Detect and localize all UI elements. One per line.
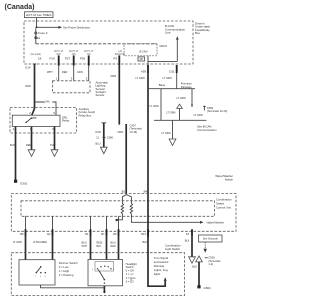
svg-text:GRN: GRN [118, 130, 124, 134]
svg-text:HOT AT ALL TIMES: HOT AT ALL TIMES [26, 13, 51, 17]
svg-text:1-2): 1-2) [208, 262, 213, 266]
wire below headlight switch [103, 286, 105, 292]
dimmer switch label [59, 261, 78, 277]
svg-text:24A: 24A [45, 101, 50, 104]
wire B4 through control unit [147, 194, 149, 238]
node: power feed junction [36, 26, 38, 28]
wire GRN below C407 [125, 126, 127, 194]
pin terminal bars [58, 55, 178, 73]
svg-text:Fuse 3: Fuse 3 [38, 31, 48, 35]
svg-text:D8: D8 [140, 57, 144, 61]
fuse/relay box border (Driver's Under-dash Fuse/Relay Box) [24, 21, 193, 64]
wire BLK from relay pin 4 to G301 [15, 127, 17, 181]
svg-text:B2: B2 [113, 232, 117, 236]
svg-text:B12: B12 [141, 232, 146, 236]
svg-text:LT GRN: LT GRN [13, 241, 22, 244]
svg-text:Package: Package [181, 85, 192, 89]
dimmer switch contacts [35, 266, 47, 278]
svg-text:See Power Distribution: See Power Distribution [63, 25, 90, 29]
svg-text:Box: Box [195, 31, 201, 35]
automatic lighting sensor box [53, 81, 91, 93]
svg-text:See Grounds: See Grounds [203, 237, 219, 241]
MICU box [124, 44, 157, 56]
svg-text:LT GRN: LT GRN [150, 104, 159, 108]
svg-text:K3: K3 [186, 232, 190, 236]
svg-text:Relay: Relay [62, 119, 70, 123]
svg-text:LT GRN: LT GRN [136, 76, 145, 80]
wire drop base [160, 89, 162, 121]
svg-text:18: 18 [38, 57, 42, 61]
svg-text:(Canada): (Canada) [5, 4, 35, 11]
label Driver's Under-dash Fuse/Relay Box [195, 21, 210, 35]
svg-text:E2: E2 [47, 232, 51, 236]
svg-text:LT GRN: LT GRN [162, 131, 171, 135]
svg-text:AUTO LT: AUTO LT [69, 50, 79, 53]
DRL relay [12, 115, 69, 126]
svg-text:B-CAN: B-CAN [140, 50, 148, 54]
dimmer switch box [19, 260, 55, 285]
wire GRN from pin 18 to DRL relay [34, 64, 36, 109]
wire drop to arrow [172, 120, 174, 139]
svg-text:WHT: WHT [47, 70, 53, 74]
svg-text:A39: A39 [141, 69, 147, 73]
svg-text:Line: Line [165, 31, 171, 35]
wiper/washer switch outer box [11, 194, 236, 232]
arrow up to B-CAN line [176, 36, 179, 39]
svg-text:BLK: BLK [143, 241, 148, 244]
junction bus wire [154, 119, 207, 121]
arrow down from see grounds [204, 249, 207, 253]
svg-text:P14: P14 [50, 57, 56, 61]
svg-text:PUR: PUR [96, 130, 102, 134]
svg-text:2 = Passing: 2 = Passing [59, 273, 74, 277]
svg-text:WHT: WHT [82, 245, 88, 248]
svg-text:Wiper/Washer: Wiper/Washer [207, 221, 226, 225]
svg-text:B6: B6 [20, 232, 24, 236]
svg-text:RED: RED [111, 245, 116, 248]
auxiliary under-hood relay box [10, 108, 77, 134]
dashed link wire [204, 242, 206, 249]
relay contact [25, 117, 36, 123]
svg-text:G14: G14 [25, 66, 31, 70]
headlight switch contacts [92, 262, 115, 284]
pin labels fuse box [38, 57, 117, 61]
svg-text:P3: P3 [114, 57, 118, 61]
resistor R2 [126, 195, 132, 217]
svg-text:LT GRN: LT GRN [163, 76, 172, 80]
svg-text:13-15): 13-15) [130, 130, 138, 134]
svg-text:Switch: Switch [126, 265, 134, 269]
wire from hot box to bus [36, 18, 38, 28]
svg-text:AUTO LT: AUTO LT [54, 50, 64, 53]
headlight switch box [88, 260, 123, 286]
svg-text:LT GRN: LT GRN [194, 113, 203, 117]
bottom pin bars of wiper/washer switch [25, 229, 193, 237]
combination switch control unit box [21, 201, 215, 217]
arrow to other page (pin 3) [51, 150, 58, 157]
combination light switch outer box [11, 253, 184, 296]
ground G301 [14, 180, 17, 183]
junction wire [148, 88, 195, 90]
wire drop premium [191, 89, 193, 107]
svg-text:LT GRN: LT GRN [166, 111, 175, 115]
svg-text:B1: B1 [122, 190, 126, 194]
node under resistors [117, 217, 122, 220]
svg-text:AUTO LT: AUTO LT [84, 50, 94, 53]
svg-text:RED: RED [26, 143, 32, 147]
label Turn Signal lights [154, 256, 169, 276]
hot-at-all-times box [25, 12, 54, 18]
headlight switch label [126, 262, 137, 284]
label B-CAN Communication Line [165, 24, 185, 35]
svg-text:G501: G501 [204, 286, 212, 290]
bottom pin labels [20, 232, 189, 236]
wire BLK from K3 [191, 237, 193, 257]
svg-text:BLK: BLK [192, 265, 197, 269]
svg-text:B7: B7 [101, 232, 105, 236]
svg-text:Relay Box: Relay Box [79, 113, 92, 117]
connector G14 tick [33, 63, 37, 65]
svg-text:BLK: BLK [185, 239, 190, 242]
wire BLK to G501 [198, 262, 200, 287]
arrow to other page (K3) [189, 257, 196, 263]
fuse column labels [54, 50, 125, 56]
svg-text:GRN: GRN [77, 70, 83, 74]
connector C407 [125, 124, 127, 126]
svg-text:10A: 10A [35, 36, 40, 40]
wires down to light switches [25, 237, 27, 260]
wire from dimmer switch to junction [41, 285, 105, 288]
svg-text:Control Unit: Control Unit [216, 205, 231, 209]
wires to lighting sensor [58, 66, 60, 81]
svg-text:GRN: GRN [25, 84, 31, 88]
svg-text:lights: lights [154, 272, 161, 276]
wire RED from relay pin 1 [31, 127, 33, 150]
wire MICU to pins [147, 56, 149, 66]
arrow to other page (pin 1) [28, 150, 35, 157]
wire from B-CAN arrow down [176, 40, 178, 62]
fuse F3 (Fuse 3 10A) [35, 28, 48, 44]
svg-text:MICU: MICU [160, 44, 168, 48]
svg-text:Switch: Switch [225, 177, 234, 181]
connector D8 box [138, 57, 145, 61]
svg-text:1 = ≡D: 1 = ≡D [126, 272, 134, 276]
resistor R1 [121, 194, 126, 217]
svg-text:B1: B1 [85, 232, 89, 236]
svg-text:BLK: BLK [10, 143, 15, 147]
wires from control unit to bottom pins [25, 216, 27, 230]
wire PUR from relay pin 3 [54, 127, 56, 150]
wire to wiper/washer arrow [131, 217, 200, 223]
svg-text:0 = Off: 0 = Off [126, 269, 134, 273]
svg-text:G301: G301 [20, 182, 28, 186]
arrow from other page to G501 [196, 256, 203, 262]
svg-text:B4: B4 [144, 190, 148, 194]
svg-text:BACKUP): BACKUP) [115, 53, 125, 56]
svg-text:BLK: BLK [97, 245, 102, 248]
svg-text:P30: P30 [80, 57, 86, 61]
svg-text:BLU: BLU [96, 142, 101, 146]
svg-text:LT GRN: LT GRN [177, 96, 186, 100]
wire branch to D11 [148, 60, 177, 62]
svg-text:Sensor: Sensor [96, 93, 105, 97]
see grounds box [199, 235, 223, 242]
connector C399 [203, 106, 205, 111]
ground G501 [197, 285, 200, 288]
wire from +B BACKUP pin down to C407 [118, 66, 120, 125]
svg-text:PUR: PUR [50, 143, 56, 147]
svg-text:(Terminals 10-13): (Terminals 10-13) [207, 109, 228, 113]
svg-text:LT BLU/RED: LT BLU/RED [33, 241, 47, 244]
wire D11 down [176, 73, 178, 89]
svg-text:C386: C386 [107, 135, 114, 139]
wire from B4 to turn signal arrow [148, 237, 165, 286]
svg-text:2 = Auto: 2 = Auto [126, 276, 136, 280]
connector C506 [205, 257, 208, 259]
svg-text:Communication: Communication [197, 128, 217, 132]
svg-text:GRN: GRN [111, 74, 117, 78]
svg-text:Light Switch: Light Switch [165, 247, 181, 251]
wire to See Power Distribution [37, 26, 59, 28]
svg-text:P27: P27 [65, 57, 71, 61]
svg-text:RED: RED [62, 70, 68, 74]
interconnect stub C386 [96, 123, 114, 154]
internal bus wire [36, 43, 157, 45]
wire LT GRN from A39 down [147, 73, 149, 194]
wire branch over relay [35, 102, 57, 115]
svg-text:D11: D11 [169, 69, 174, 73]
svg-text:Base: Base [159, 83, 166, 87]
wire jog to relay pin 2 [32, 109, 35, 116]
wire colours below switch [13, 239, 190, 248]
